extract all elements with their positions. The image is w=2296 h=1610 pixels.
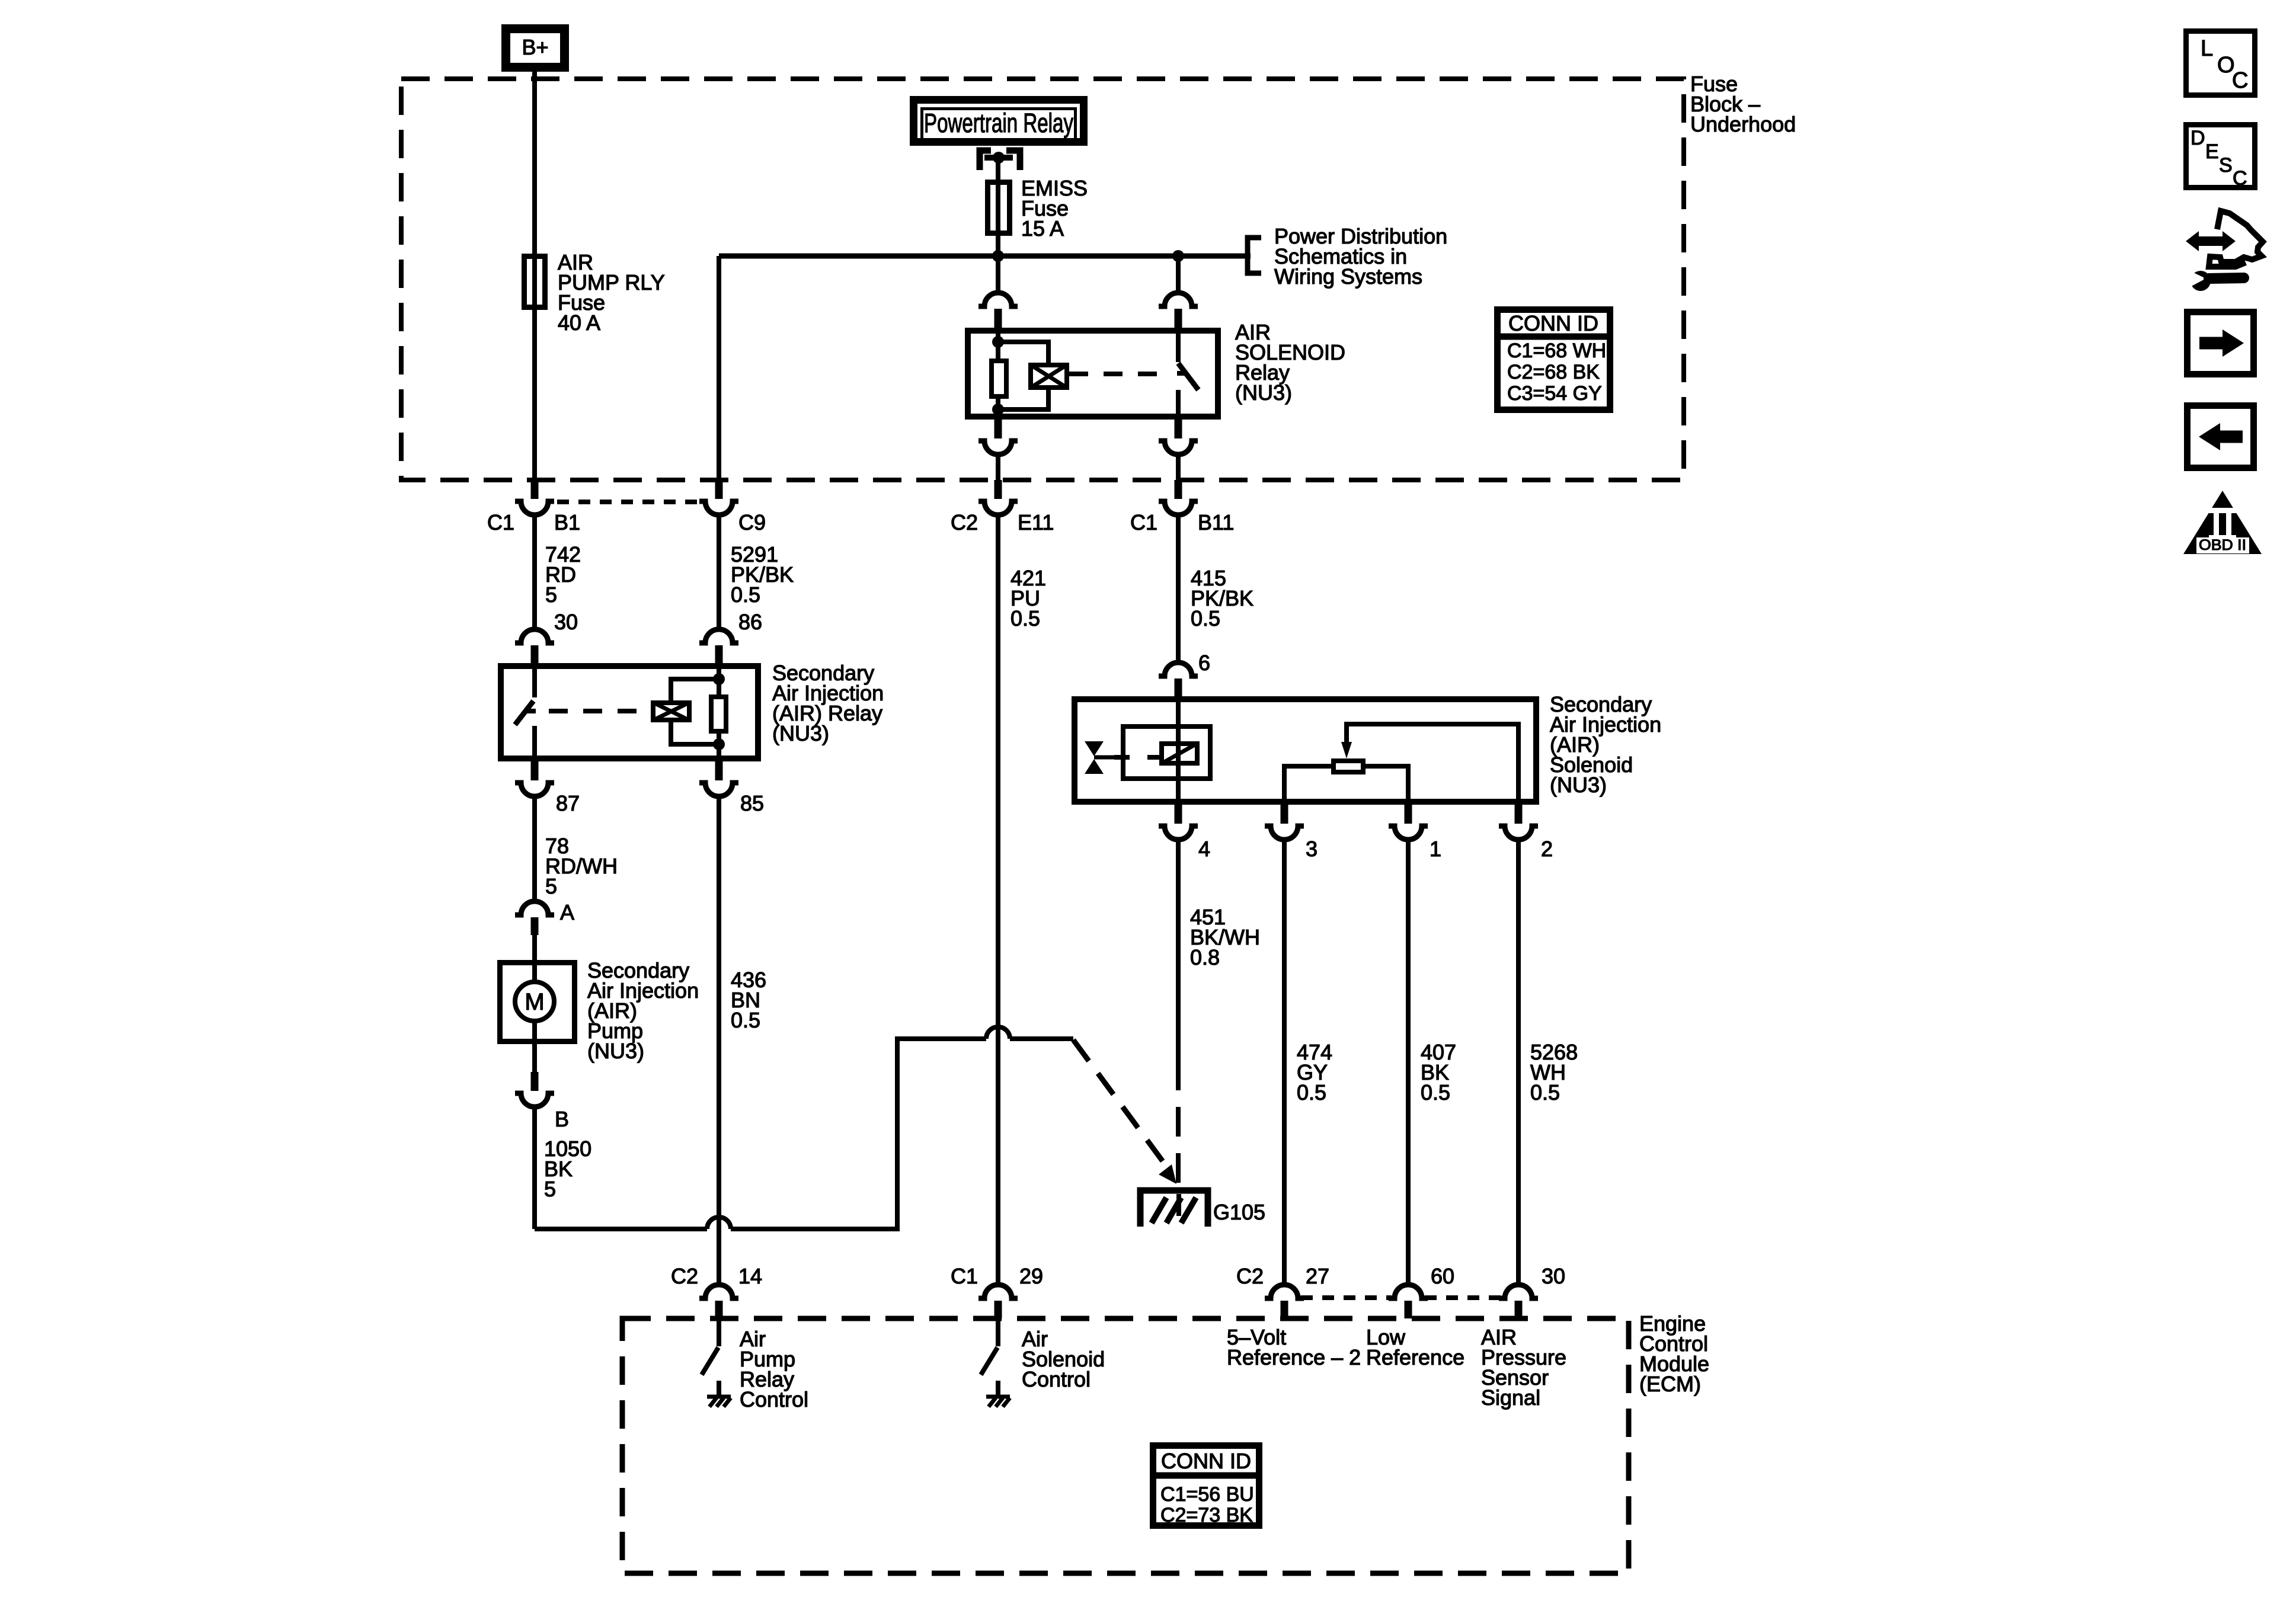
icon DESC box [2186,125,2255,188]
svg-text:C: C [2233,167,2247,190]
svg-text:Signal: Signal [1481,1385,1540,1410]
svg-text:C1=56 BU: C1=56 BU [1160,1483,1254,1506]
fuse block - underhood dashed box [401,79,1684,480]
wire 742 RD 5 [532,515,537,630]
svg-text:M: M [525,989,544,1015]
AIR SOLENOID relay switch [1176,328,1181,362]
svg-text:2: 2 [1541,837,1553,861]
connector 30 [1499,1285,1538,1298]
AIR relay coil pin wire [717,666,721,694]
svg-text:5: 5 [544,1177,556,1201]
connector link C1 dotted [557,500,699,504]
svg-text:Underhood: Underhood [1690,112,1796,136]
svg-text:C2: C2 [951,510,978,534]
svg-text:L: L [2201,36,2213,61]
svg-text:15 A: 15 A [1021,216,1064,241]
wire B11 inside fuse block [1176,454,1181,480]
pin 1 connector [1405,805,1412,824]
svg-text:60: 60 [1431,1264,1454,1288]
solenoid pot left wire [1284,766,1331,805]
svg-text:87: 87 [556,791,580,815]
AIR relay resistor [711,697,726,731]
AIR SOLENOID relay junction top [992,336,1004,348]
svg-text:C2=68 BK: C2=68 BK [1507,361,1600,383]
pin 85 connector [715,761,723,780]
svg-text:0.5: 0.5 [1421,1080,1450,1105]
svg-text:5: 5 [545,582,557,607]
svg-text:Control: Control [740,1387,808,1411]
ground run dashed diagonal [1073,1040,1163,1161]
ground G105 [1140,1190,1208,1227]
svg-text:6: 6 [1198,651,1210,675]
solenoid pot right wire [1366,766,1408,805]
ECM driver air pump relay control [717,1318,721,1346]
AIR relay junction bottom [713,738,725,750]
svg-text:Powertrain Relay: Powertrain Relay [924,108,1073,138]
svg-text:27: 27 [1306,1264,1329,1288]
wire B11 branch [1176,256,1181,293]
AIR relay junction top [713,673,725,685]
svg-text:30: 30 [554,610,578,634]
icon schematic double arrow [2186,231,2236,251]
svg-text:14: 14 [738,1264,762,1288]
wire 5291 PK/BK 0.5 [717,515,721,630]
AIR SOLENOID relay coil bracket bottom [998,390,1048,409]
icon LOC box [2186,31,2255,95]
svg-text:C3=54 GY: C3=54 GY [1507,382,1602,405]
fuse EMISS 15 A [988,183,1010,233]
svg-text:E: E [2205,140,2219,163]
svg-text:0.5: 0.5 [1191,606,1220,630]
svg-text:B11: B11 [1198,510,1234,534]
solenoid wiper arrow [1347,724,1518,805]
icon OBD II triangle [2183,491,2262,554]
AIR relay coil [653,703,689,720]
connector C2 14 [699,1285,738,1298]
connector link C2 dotted b [1425,1295,1502,1300]
svg-text:OBD II: OBD II [2199,537,2246,553]
svg-text:0.8: 0.8 [1190,945,1220,969]
svg-text:(NU3): (NU3) [1235,380,1292,405]
wire 421 PU 0.5 [996,515,1000,1285]
svg-text:0.5: 0.5 [731,582,760,607]
connector C1 B1 [531,480,539,499]
pin 3 connector [1281,805,1288,824]
svg-text:Reference: Reference [1366,1345,1464,1369]
wire 436 BN 0.5 [717,796,721,1285]
svg-text:29: 29 [1019,1264,1043,1288]
svg-text:E11: E11 [1018,510,1054,534]
svg-text:0.5: 0.5 [731,1008,760,1032]
svg-text:CONN ID: CONN ID [1161,1449,1251,1473]
reference bracket power distribution [1248,238,1261,273]
solenoid check valve [1085,741,1104,756]
ECM dashed box [622,1318,1629,1573]
connector E11 coil pin [978,293,1018,306]
svg-text:C2=73 BK: C2=73 BK [1160,1504,1253,1526]
AIR SOLENOID relay junction bottom [992,404,1004,415]
svg-text:(NU3): (NU3) [772,721,829,745]
junction B11 bus [1172,250,1184,262]
wire E11 inside fuse block [996,454,1000,480]
connector link C2 dotted a [1301,1295,1392,1300]
svg-text:Wiring Systems: Wiring Systems [1274,264,1422,289]
wire C9 branch [717,256,721,480]
AIR SOLENOID relay coil bracket top [998,342,1048,363]
svg-text:B+: B+ [522,35,548,59]
svg-text:30: 30 [1542,1264,1565,1288]
connector 60 [1389,1285,1428,1298]
conn id box ECM [1153,1446,1259,1526]
solenoid AIR box [1075,699,1536,802]
svg-text:1: 1 [1430,837,1441,861]
solenoid valve link dashes [1114,755,1159,760]
connector B11 switch pin [1159,293,1198,306]
wire 451 BK/WH 0.8 [1176,840,1181,1061]
pin 86 connector [699,629,738,643]
AIR relay actuation dashes [549,709,651,713]
wire 415 PK/BK 0.5 [1176,515,1181,664]
svg-text:B1: B1 [554,510,580,534]
pin 30 connector [515,629,554,643]
svg-text:3: 3 [1306,837,1318,861]
solenoid pin4 wire [1176,696,1181,805]
ground run wire [535,1227,707,1231]
svg-text:40 A: 40 A [558,311,600,335]
AIR SOLENOID relay coil pin wire [996,328,1000,360]
svg-text:Control: Control [1022,1367,1091,1391]
svg-text:0.5: 0.5 [1297,1080,1326,1105]
icon forward arrow box [2188,312,2254,375]
svg-text:C2: C2 [1236,1264,1264,1288]
svg-text:C1: C1 [1130,510,1157,534]
pin 87 connector [531,761,539,780]
wire 1050 BK 5 [532,1107,537,1229]
svg-text:C1=68 WH: C1=68 WH [1507,340,1606,362]
svg-text:86: 86 [738,610,762,634]
svg-text:85: 85 [740,791,764,815]
svg-text:CONN ID: CONN ID [1508,311,1598,335]
svg-text:S: S [2219,154,2233,177]
connector C2 E11 [994,480,1002,499]
svg-text:G105: G105 [1213,1200,1265,1224]
AIR SOLENOID relay coil [1031,365,1067,388]
svg-text:B: B [555,1107,569,1131]
conn id box fuse block [1498,310,1610,410]
svg-text:C1: C1 [487,510,514,534]
solenoid inner box [1123,726,1210,779]
AIR SOLENOID relay actuation dashes [1069,372,1165,376]
AIR relay coil bracket bottom [671,722,719,744]
svg-text:4: 4 [1198,837,1210,861]
connector C9 [715,480,723,499]
wire 407 BK 0.5 [1406,840,1411,1285]
powertrain relay contact bracket [980,151,991,170]
icon schematic outline [2209,211,2263,267]
solenoid pot resistor [1334,761,1363,772]
pin 4 connector [1175,805,1182,824]
wire A to pump [532,935,537,960]
wire 5268 WH 0.5 [1516,840,1521,1285]
svg-text:5: 5 [545,874,557,898]
svg-text:0.5: 0.5 [1011,606,1040,630]
pump AIR motor box [500,963,575,1042]
svg-text:C9: C9 [738,510,766,534]
svg-text:C: C [2232,68,2248,93]
ECM driver air solenoid control [996,1318,1000,1346]
svg-text:(NU3): (NU3) [1550,773,1607,797]
fuse AIR PUMP RLY 40 A [525,257,545,308]
svg-text:C1: C1 [951,1264,978,1288]
svg-text:(ECM): (ECM) [1639,1372,1701,1396]
connector C2 27 [1265,1285,1304,1298]
header Powertrain Relay [914,100,1084,142]
icon wrench [2191,271,2211,291]
solenoid coil symbol [1162,744,1197,763]
svg-text:D: D [2191,127,2205,149]
pin 2 connector [1515,805,1523,824]
power node B+ [506,29,565,68]
wire 474 GY 0.5 [1282,840,1287,1285]
wire powertrain relay to bus [996,158,1000,293]
connector B [532,1044,537,1072]
wire 78 RD/WH 5 [532,796,537,901]
connector A [515,901,554,915]
icon back arrow box [2188,406,2254,468]
svg-text:(NU3): (NU3) [587,1039,644,1063]
svg-text:0.5: 0.5 [1530,1080,1560,1105]
svg-text:Reference – 2: Reference – 2 [1227,1345,1361,1369]
wire B+ feed [532,72,537,480]
svg-text:C2: C2 [671,1264,698,1288]
bus wire from EMISS fuse [719,254,1251,259]
connector E11 relay exit [994,420,1002,438]
AIR SOLENOID relay coil resistor [992,361,1006,396]
AIR relay coil bracket top [671,679,719,700]
connector C1 29 [978,1285,1018,1298]
connector B11 relay exit [1175,420,1182,438]
AIR relay switch [532,666,537,697]
connector C1 B11 [1175,480,1182,499]
relay AIR SOLENOID box [968,331,1218,417]
pin 6 connector [1159,662,1198,676]
junction EMISS bus [992,250,1004,262]
svg-text:A: A [560,900,574,924]
relay AIR box [501,666,758,758]
